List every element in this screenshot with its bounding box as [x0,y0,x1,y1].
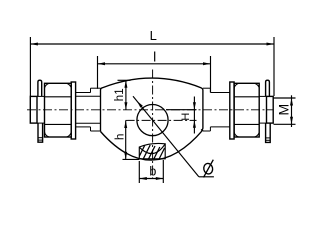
svg-text:H: H [180,113,192,121]
svg-text:L: L [150,28,157,43]
svg-text:M: M [275,104,291,116]
svg-text:l: l [153,49,156,65]
svg-text:h1: h1 [114,88,126,101]
svg-text:b: b [149,165,156,179]
svg-text:h: h [114,134,126,140]
